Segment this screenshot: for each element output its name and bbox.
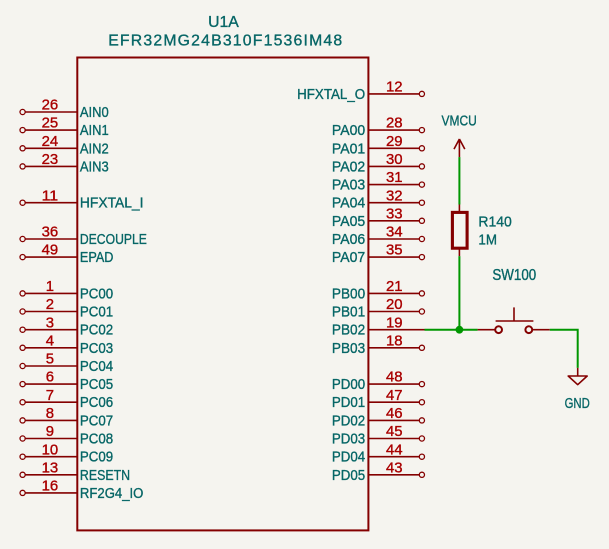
svg-text:18: 18 [386, 333, 403, 349]
svg-text:45: 45 [386, 424, 403, 440]
svg-text:DECOUPLE: DECOUPLE [80, 232, 147, 248]
svg-text:EFR32MG24B310F1536IM48: EFR32MG24B310F1536IM48 [108, 32, 342, 49]
svg-text:9: 9 [46, 424, 54, 440]
svg-text:PB01: PB01 [332, 305, 365, 321]
svg-text:VMCU: VMCU [442, 113, 477, 130]
svg-text:47: 47 [386, 388, 403, 404]
svg-text:PA07: PA07 [332, 250, 365, 266]
svg-text:7: 7 [46, 388, 54, 404]
svg-text:1M: 1M [478, 231, 497, 248]
svg-text:5: 5 [46, 352, 54, 368]
svg-text:PA02: PA02 [332, 159, 365, 175]
svg-text:11: 11 [42, 188, 59, 204]
svg-text:10: 10 [42, 442, 59, 458]
svg-text:HFXTAL_I: HFXTAL_I [80, 196, 144, 212]
svg-text:19: 19 [386, 315, 403, 331]
svg-text:16: 16 [42, 479, 59, 495]
svg-text:PD00: PD00 [332, 377, 365, 393]
svg-text:PC00: PC00 [80, 286, 113, 302]
svg-text:AIN0: AIN0 [80, 105, 109, 121]
svg-text:PA00: PA00 [332, 123, 365, 139]
svg-text:PC07: PC07 [80, 413, 113, 429]
svg-text:PD05: PD05 [332, 468, 365, 484]
svg-text:PA01: PA01 [332, 141, 365, 157]
svg-text:35: 35 [386, 243, 403, 259]
svg-text:1: 1 [46, 279, 54, 295]
svg-text:PD01: PD01 [332, 395, 365, 411]
svg-text:2: 2 [46, 297, 54, 313]
svg-text:13: 13 [42, 460, 59, 476]
svg-text:PD03: PD03 [332, 432, 365, 448]
svg-text:PD02: PD02 [332, 413, 365, 429]
svg-text:25: 25 [42, 116, 59, 132]
svg-text:33: 33 [386, 206, 403, 222]
svg-text:21: 21 [386, 279, 403, 295]
svg-text:PA03: PA03 [332, 178, 365, 194]
svg-text:24: 24 [42, 134, 59, 150]
svg-text:SW100: SW100 [492, 267, 536, 284]
svg-text:AIN1: AIN1 [80, 123, 109, 139]
svg-text:PD04: PD04 [332, 450, 365, 466]
svg-text:29: 29 [386, 134, 403, 150]
svg-text:4: 4 [46, 333, 54, 349]
svg-text:PC02: PC02 [80, 323, 113, 339]
svg-text:30: 30 [386, 152, 403, 168]
svg-text:PC09: PC09 [80, 450, 113, 466]
svg-text:RF2G4_IO: RF2G4_IO [80, 486, 143, 502]
svg-text:34: 34 [386, 225, 403, 241]
svg-text:6: 6 [46, 370, 54, 386]
svg-text:3: 3 [46, 315, 54, 331]
svg-text:31: 31 [386, 170, 403, 186]
svg-text:48: 48 [386, 370, 403, 386]
svg-text:PC05: PC05 [80, 377, 113, 393]
svg-text:AIN2: AIN2 [80, 141, 109, 157]
svg-text:EPAD: EPAD [80, 250, 114, 266]
svg-text:R140: R140 [478, 213, 511, 230]
svg-text:PB03: PB03 [332, 341, 365, 357]
svg-text:PC06: PC06 [80, 395, 113, 411]
svg-text:23: 23 [42, 152, 59, 168]
svg-text:PC01: PC01 [80, 305, 113, 321]
svg-text:PA04: PA04 [332, 196, 365, 212]
svg-text:46: 46 [386, 406, 403, 422]
svg-text:43: 43 [386, 460, 403, 476]
svg-text:GND: GND [565, 395, 590, 412]
svg-text:26: 26 [42, 98, 59, 114]
svg-text:PC08: PC08 [80, 432, 113, 448]
svg-text:RESETN: RESETN [80, 468, 130, 484]
svg-text:U1A: U1A [208, 14, 239, 31]
svg-text:44: 44 [386, 442, 403, 458]
svg-text:HFXTAL_O: HFXTAL_O [297, 87, 365, 103]
svg-text:PA06: PA06 [332, 232, 365, 248]
svg-text:PC04: PC04 [80, 359, 113, 375]
svg-text:20: 20 [386, 297, 403, 313]
svg-text:32: 32 [386, 188, 403, 204]
svg-text:12: 12 [386, 80, 403, 96]
svg-text:PA05: PA05 [332, 214, 365, 230]
svg-text:28: 28 [386, 116, 403, 132]
svg-text:8: 8 [46, 406, 54, 422]
svg-text:49: 49 [42, 243, 59, 259]
svg-text:PB02: PB02 [332, 323, 365, 339]
svg-text:36: 36 [42, 225, 59, 241]
svg-text:AIN3: AIN3 [80, 159, 109, 175]
svg-text:PB00: PB00 [332, 286, 365, 302]
svg-text:PC03: PC03 [80, 341, 113, 357]
